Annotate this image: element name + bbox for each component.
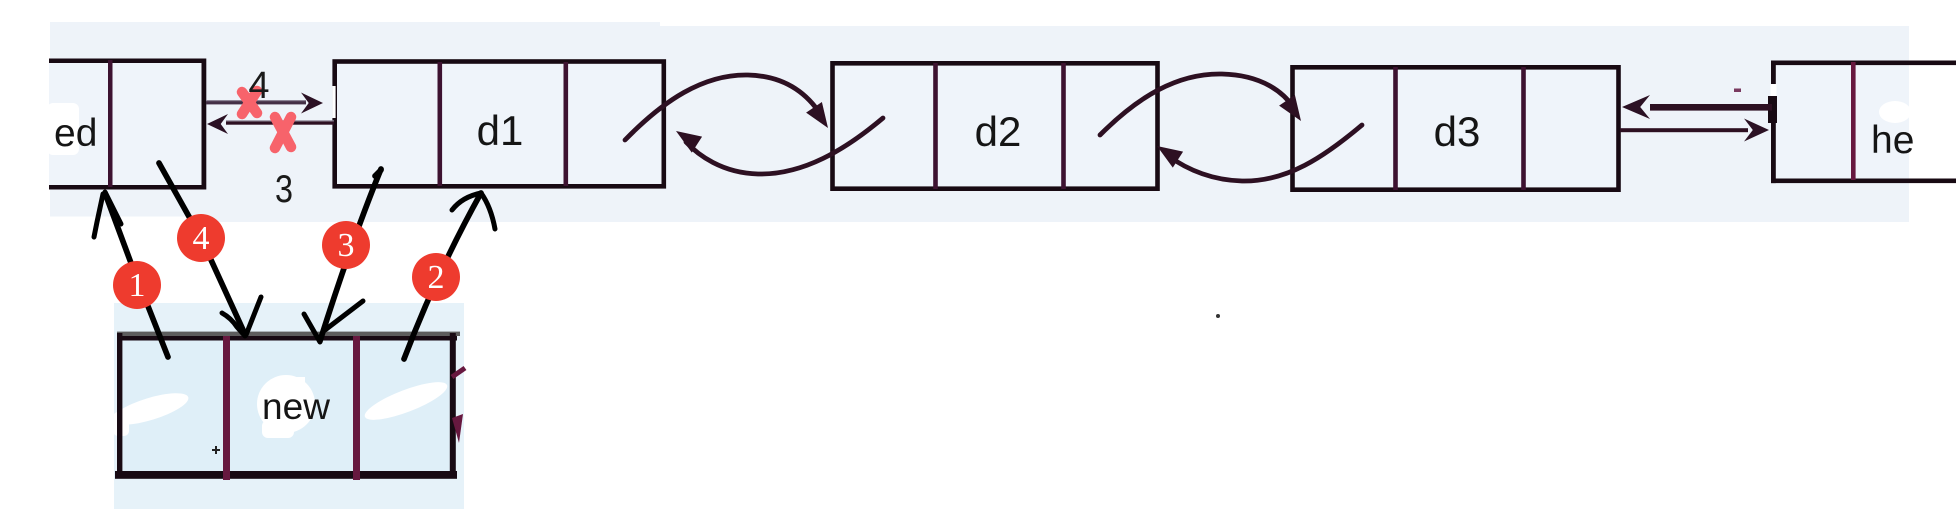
label d3 — [1434, 108, 1481, 155]
red step circle 2 — [412, 253, 460, 301]
node d3 divider 1 — [1393, 67, 1398, 190]
red X mark 2 on d1.prev link — [275, 117, 291, 148]
wire: head.next -> d1 (top arrow, broken) shaft — [206, 100, 306, 104]
node d2 divider 1 — [933, 63, 938, 189]
label "3" below bottom arrow — [275, 168, 293, 211]
red step circle 4 — [177, 214, 225, 262]
new node divider 1 — [223, 336, 230, 480]
small maroon dash above bottom arrow — [1734, 89, 1741, 93]
node head-right fill — [1772, 61, 1909, 183]
node head-right divider — [1851, 62, 1856, 180]
svg-text:1: 1 — [129, 267, 146, 304]
white smudge in new cell 3 — [361, 375, 451, 427]
white eraser smudge behind "ed" text — [47, 103, 79, 155]
arrowhead of head.next -> d1 — [301, 93, 323, 114]
arrowhead of d1.prev -> head — [207, 114, 228, 134]
node head-left bottom border — [49, 185, 206, 190]
step arrow 2 shaft: new.next -> d1 — [404, 193, 481, 359]
step arrow 1 shaft: new.prev -> head — [105, 193, 168, 357]
node d1 divider 2 — [564, 62, 569, 186]
white smudge in new cell 1 — [109, 387, 192, 436]
node d2 divider 2 — [1061, 63, 1066, 189]
node d1 box — [335, 62, 664, 187]
maroon leftover mark lower on new right edge — [452, 414, 463, 443]
step arrow 3 shaft: d1.prev -> new — [320, 169, 381, 341]
node head-right bottom border — [1771, 179, 1956, 184]
step arrow 3 head barbs — [304, 301, 363, 342]
label d2 — [975, 108, 1022, 155]
svg-text:new: new — [262, 386, 330, 427]
node head-left divider — [108, 60, 113, 187]
svg-text:d2: d2 — [975, 108, 1022, 155]
white notch erasing part of d1 left border — [332, 86, 335, 118]
new node left border — [117, 333, 122, 478]
black stub where arrows join head-right border — [1768, 96, 1777, 123]
background band top-left segment — [50, 22, 660, 222]
node d1 divider 1 — [438, 62, 443, 186]
curved wire d1.next -> d2 — [625, 75, 821, 140]
curved wire d2.next -> d3 — [1100, 74, 1294, 135]
background panel behind new node — [114, 303, 464, 509]
step arrow 4 shaft: head.next -> new — [159, 163, 244, 332]
arrowhead d3.next -> head — [1744, 119, 1769, 142]
new node divider 2 — [353, 336, 360, 480]
label new — [262, 386, 330, 427]
step arrow 4 head barbs — [222, 297, 261, 336]
node d3 box — [1293, 67, 1619, 189]
node head-left (cut off at image edge), fill — [49, 59, 204, 189]
svg-text:ed: ed — [54, 112, 97, 155]
background band main segment — [655, 26, 1909, 222]
arrowhead head.prev -> d3 — [1622, 95, 1650, 119]
white eraser smudge above "he" — [1879, 101, 1911, 123]
new node bottom border (thick) — [115, 471, 457, 479]
label d1 — [477, 107, 524, 154]
maroon leftover mark upper on new right edge — [452, 368, 465, 377]
svg-text:he: he — [1871, 119, 1914, 162]
new node right border — [450, 333, 456, 478]
tiny black plus mark in new cell 1 — [212, 446, 220, 454]
red X mark 1 on head.next link — [242, 91, 257, 114]
wire d3.next -> head (bottom arrow) shaft — [1620, 128, 1748, 132]
svg-text:4: 4 — [248, 65, 269, 107]
svg-text:3: 3 — [275, 168, 293, 211]
red step circle 1 — [113, 261, 161, 309]
wire: d1.prev -> head (bottom arrow, broken) shaft — [226, 120, 334, 124]
curved wire d3.prev -> d2 — [1167, 125, 1362, 181]
node head-left right border — [202, 59, 207, 190]
step arrow 2 head barbs — [452, 193, 495, 229]
svg-text:3: 3 — [338, 227, 355, 264]
arrowhead d2.next -> d3 — [1279, 95, 1301, 121]
new node top border — [117, 336, 457, 341]
white notch on head-right left border — [1771, 84, 1777, 96]
white smudge in new cell 2 (behind text) — [257, 375, 315, 438]
svg-text:2: 2 — [428, 259, 445, 296]
label "ed" (cut "head") — [54, 112, 97, 155]
curved wire d2.prev -> d1 — [686, 118, 883, 174]
node head-right left border — [1771, 61, 1776, 184]
node d3 divider 2 — [1521, 67, 1526, 190]
node d2 box — [833, 63, 1158, 188]
red step circle 3 — [322, 221, 370, 269]
white step notch on band bottom edge left of x=200 — [50, 217, 200, 223]
label "4" above top arrow — [248, 65, 269, 107]
arrowhead d1.next -> d2 — [806, 102, 828, 128]
new node fill — [119, 336, 453, 474]
arrowhead d3.prev -> d2 — [1157, 146, 1183, 168]
label "he" (cut "head") — [1871, 119, 1914, 162]
new node grey top shadow — [117, 332, 460, 336]
tiny black dot right area — [1216, 314, 1220, 318]
arrowhead d2.prev -> d1 — [676, 131, 702, 153]
wire head.prev -> d3 (thick top arrow) shaft — [1650, 104, 1772, 111]
svg-text:d3: d3 — [1434, 108, 1481, 155]
svg-text:d1: d1 — [477, 107, 524, 154]
svg-text:4: 4 — [193, 220, 210, 257]
node head-right top border — [1771, 61, 1956, 66]
step arrow 1 head barbs — [94, 192, 121, 237]
node head-left top border — [49, 59, 206, 64]
